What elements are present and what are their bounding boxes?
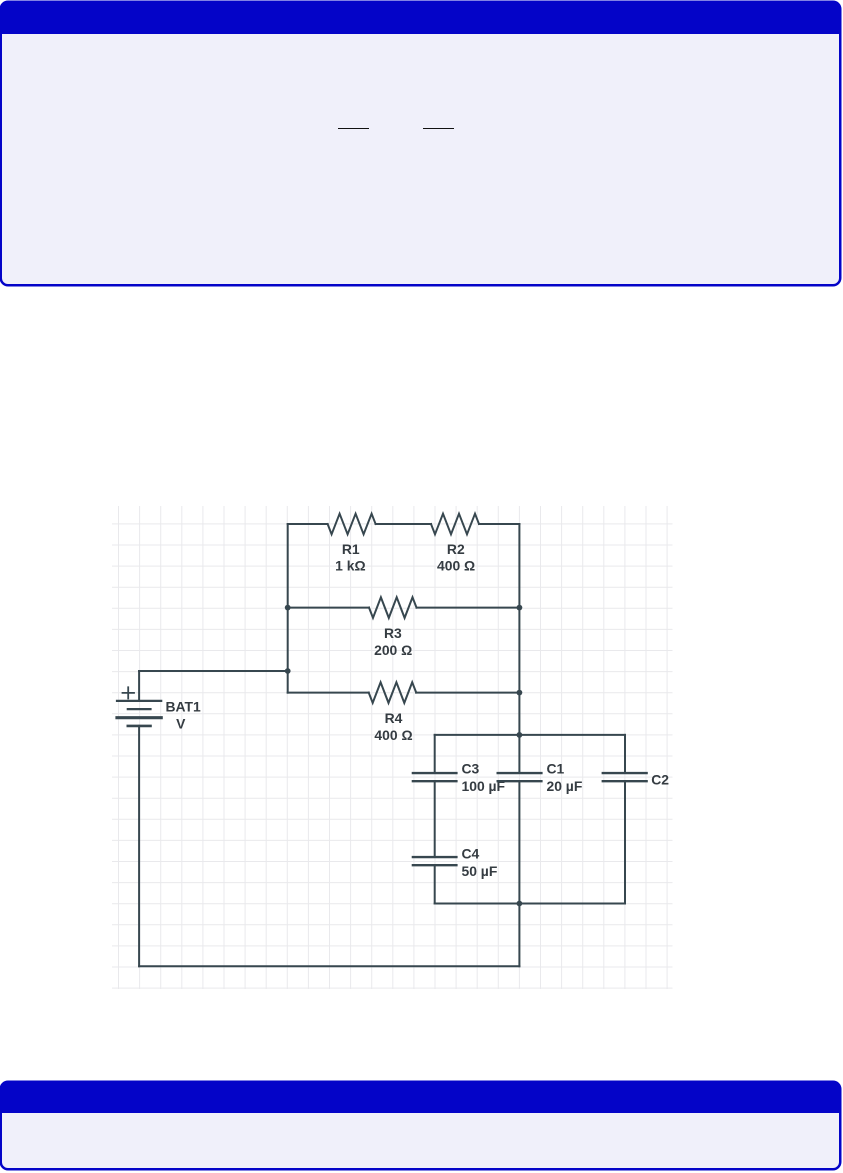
resistor R3 with value 200 &#937; [369,597,417,658]
svg-text:200 Ω: 200 Ω [374,642,412,658]
wire: capacitor box right edge, above C2 [624,735,626,772]
capacitor C2 [603,772,669,788]
node: right rail / box bottom junction [517,901,523,907]
resistor R4 with value 400 &#937; [369,682,417,743]
wire: capacitor box top edge [435,734,625,736]
node: left rail / battery junction [285,668,291,674]
fraction bar 2 (equation numerator rule) [423,128,454,129]
wire: battery negative lead down left side [138,726,140,966]
svg-text:R4: R4 [385,710,403,726]
wire: top row, left node to R1 [288,523,328,525]
svg-text:BAT1: BAT1 [166,698,202,714]
fraction bar 1 (equation numerator rule) [338,128,369,129]
svg-text:R3: R3 [384,625,402,641]
capacitor C4 with value 50 &#181;F [413,846,497,880]
wire: capacitor box left edge, above C3 [434,735,436,772]
battery BAT1, value V [117,671,201,732]
node: right rail / R3 junction [517,605,523,611]
node: right rail / R4 junction [517,690,523,696]
resistor R1 with value 1 k&#937; [328,514,376,574]
wire: top row, R2 to right rail [479,523,519,525]
capacitor C3 with value 100 &#181;F [413,761,505,795]
wire: R3 row, left rail to R3 [288,607,369,609]
wire: bottom return wire [139,965,519,967]
wire: R4 row, R4 to right rail [416,692,519,694]
wire: capacitor box left edge, below C4 [434,866,436,903]
svg-text:1 kΩ: 1 kΩ [335,558,365,574]
top box title bar [0,1,841,35]
node: left rail / R3 junction [285,605,291,611]
wire: right vertical rail, upper part down to C1 top plate [518,524,520,772]
bottom answer box frame [0,1081,841,1170]
svg-text:V: V [176,716,186,732]
wire: top row, between R1 and R2 [376,523,431,525]
wire: capacitor box bottom edge [435,903,625,905]
bottom box title bar [0,1081,841,1114]
wire: right vertical rail, C1 bottom plate down to bottom wire [518,782,520,966]
resistor R2 with value 400 &#937; [431,514,479,574]
svg-text:R1: R1 [342,541,360,557]
svg-text:R2: R2 [447,541,465,557]
wire: battery positive lead to left rail [139,670,288,672]
wire: left vertical rail [287,524,289,693]
svg-text:20 µF: 20 µF [547,778,583,794]
top problem statement box frame [0,1,841,286]
svg-text:C1: C1 [547,761,565,777]
node: right rail / box top junction [517,732,523,738]
wire: capacitor box left edge, between C3 and C4 [434,782,436,856]
svg-text:400 Ω: 400 Ω [437,558,475,574]
wire: R3 row, R3 to right rail [417,607,520,609]
wire: capacitor box right edge, below C2 [624,782,626,903]
wire: R4 row, left rail corner to R4 [288,692,369,694]
svg-text:C3: C3 [462,761,480,777]
svg-text:400 Ω: 400 Ω [374,727,412,743]
svg-text:C4: C4 [462,846,480,862]
svg-text:C2: C2 [651,772,669,788]
svg-text:50 µF: 50 µF [462,863,498,879]
capacitor C1 with value 20 &#181;F (on middle rail) [498,761,583,795]
